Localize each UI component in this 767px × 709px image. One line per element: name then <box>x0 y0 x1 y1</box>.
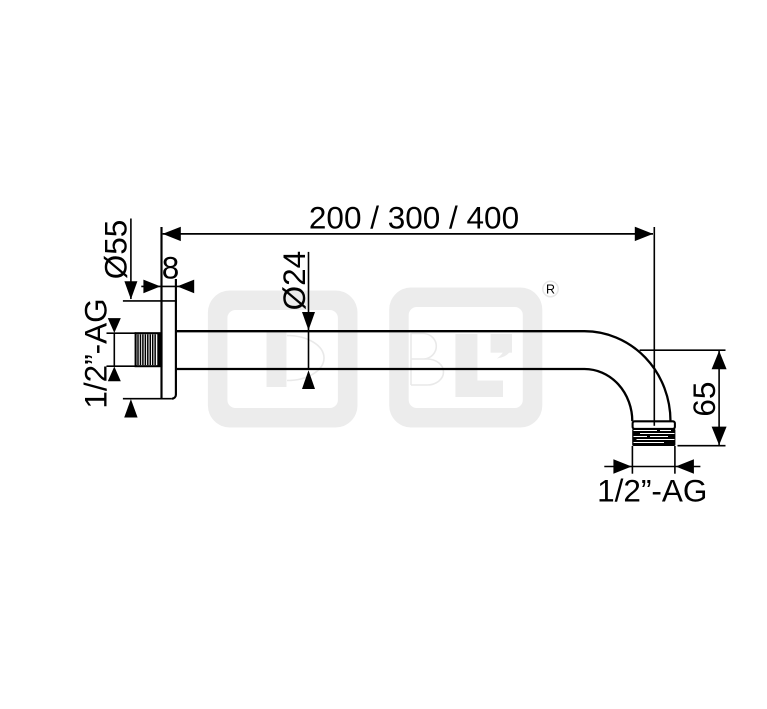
outlet dim line <box>604 466 700 468</box>
watermark left D bowl arc <box>287 336 324 381</box>
diameter-55 dim line with down arrow <box>130 219 132 300</box>
watermark B outline <box>411 333 444 385</box>
outlet thread block <box>632 429 675 446</box>
diameter-55 bottom up arrow <box>124 399 137 417</box>
svg-text:R: R <box>546 283 555 297</box>
watermark registered mark <box>543 281 558 296</box>
diameter-24 up arrow <box>302 370 315 389</box>
flange left edge / top dim extension line left <box>160 227 162 399</box>
flange top edge and diameter-55 top extension line <box>123 300 177 302</box>
svg-text:8: 8 <box>162 249 180 285</box>
watermark right rounded square <box>389 288 542 428</box>
watermark L foot <box>477 381 503 398</box>
top dim line 200/300/400 <box>163 233 653 235</box>
flange bottom edge and diameter-55 bottom extension line <box>123 398 172 400</box>
nipple dim down arrow <box>108 318 121 333</box>
65 dim bottom extension line <box>678 445 726 447</box>
outlet dim left-pointing arrow <box>676 459 694 473</box>
pipe top line <box>177 330 585 332</box>
nipple dim bottom extension line <box>107 365 137 367</box>
top dim right arrow <box>635 227 653 241</box>
watermark left inner bar (D stem) <box>267 331 287 387</box>
wall thread nipple outline <box>136 333 162 366</box>
svg-text:65: 65 <box>686 382 722 417</box>
8-dim line with inward arrows <box>141 285 193 287</box>
thread white streaks <box>634 431 675 443</box>
watermark L stem bar <box>455 334 477 397</box>
65 dim up arrow <box>712 351 727 370</box>
diameter-24 dim line <box>308 252 310 370</box>
outlet cap <box>633 421 675 429</box>
watermark corner piece <box>491 334 512 353</box>
svg-text:Ø24: Ø24 <box>276 251 312 311</box>
nipple dim top extension line <box>107 332 137 334</box>
svg-text:Ø55: Ø55 <box>98 220 134 280</box>
top dim right extension line <box>653 227 655 426</box>
65 dim line <box>718 350 720 446</box>
top dim left arrow <box>163 227 181 241</box>
watermark apostrophe curl <box>497 343 512 359</box>
pipe bottom line <box>177 368 585 370</box>
svg-text:1/2”-AG: 1/2”-AG <box>597 472 707 508</box>
outlet dim right extension line <box>674 446 676 474</box>
diameter-24 down arrow <box>302 312 315 330</box>
65 dim down arrow <box>712 427 727 446</box>
elbow outer arc <box>585 331 671 421</box>
outlet dim right-pointing arrow <box>613 459 631 473</box>
nipple right solid band <box>157 333 162 366</box>
nipple dim line <box>113 333 115 366</box>
nipple thread hatch lines <box>138 334 155 365</box>
65 dim top extension line <box>640 349 726 351</box>
watermark left rounded square <box>208 291 358 428</box>
outlet dim left extension line <box>631 446 633 474</box>
elbow inner arc <box>585 369 633 421</box>
svg-text:1/2”-AG: 1/2”-AG <box>78 298 114 408</box>
nipple dim up arrow <box>108 367 121 382</box>
flange right edge with rounded bottom corner / 8-dim extension line right <box>172 279 176 399</box>
top dim extension line tail inside cap <box>653 421 655 426</box>
svg-text:200 / 300 / 400: 200 / 300 / 400 <box>309 200 519 236</box>
